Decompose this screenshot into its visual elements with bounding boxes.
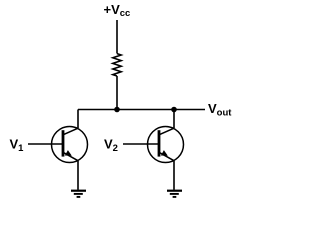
- resistor R1: [113, 54, 121, 76]
- wire Vcc to resistor: [116, 20, 118, 54]
- wire resistor to rail: [116, 76, 118, 110]
- wire Q1 collector: [77, 110, 79, 129]
- wire Q1 emitter: [77, 161, 79, 190]
- node junction resistor/rail: [114, 107, 120, 113]
- ground Q1: [71, 191, 86, 197]
- wire Q2 emitter: [173, 161, 175, 190]
- wire V2 to Q2 base: [123, 143, 158, 145]
- label V1: [10, 136, 25, 154]
- ground Q2: [167, 191, 182, 197]
- transistor Q2: [148, 127, 184, 163]
- label Vout: [208, 101, 232, 118]
- wire Q2 collector: [173, 110, 175, 129]
- wire V1 to Q1 base: [28, 143, 62, 145]
- transistor Q1: [52, 127, 88, 163]
- wire collector rail: [78, 109, 205, 111]
- node junction Q2 collector/rail: [171, 107, 177, 113]
- label +Vcc: [104, 2, 131, 19]
- label V2: [104, 137, 118, 155]
